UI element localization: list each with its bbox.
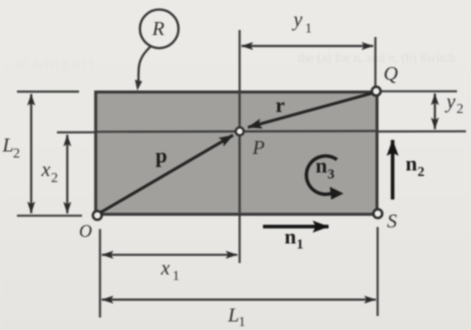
svg-text:3: 3: [328, 168, 335, 183]
svg-text:R: R: [151, 18, 164, 40]
svg-text:L: L: [227, 305, 239, 327]
svg-text:1: 1: [173, 269, 180, 284]
svg-text:n: n: [285, 225, 297, 249]
svg-text:2: 2: [51, 171, 58, 186]
svg-text:1: 1: [305, 22, 312, 37]
svg-text:O: O: [79, 221, 92, 241]
svg-text:y: y: [445, 91, 456, 113]
svg-text:(C dclv) p o r t: (C dclv) p o r t: [16, 56, 93, 71]
svg-text:Q: Q: [384, 63, 399, 85]
svg-text:n: n: [406, 152, 418, 176]
svg-text:p: p: [156, 144, 168, 168]
svg-text:2: 2: [457, 102, 464, 117]
svg-text:1: 1: [239, 315, 246, 330]
svg-text:x: x: [41, 159, 51, 181]
svg-text:L: L: [2, 135, 14, 157]
svg-text:S: S: [387, 211, 397, 233]
svg-text:2: 2: [13, 147, 20, 162]
svg-text:r: r: [276, 93, 285, 117]
svg-text:1: 1: [297, 238, 304, 253]
svg-text:2: 2: [418, 165, 425, 180]
svg-text:the (a) for n, and n, (b) Swit: the (a) for n, and n, (b) Switch: [298, 50, 456, 65]
svg-text:x: x: [160, 258, 170, 280]
svg-text:y: y: [292, 9, 303, 31]
svg-text:n: n: [316, 154, 328, 178]
svg-text:P: P: [252, 137, 265, 159]
